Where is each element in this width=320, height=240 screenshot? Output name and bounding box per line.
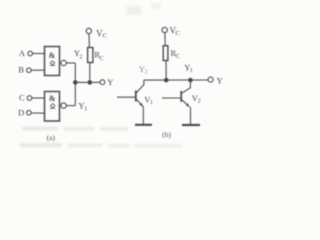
input terminal A [28, 51, 33, 56]
svg-text:(a): (a) [47, 133, 56, 142]
input terminal C [27, 96, 32, 101]
resistor RC (b) [163, 46, 168, 61]
input terminal B [27, 68, 32, 73]
output bus (a) [75, 81, 100, 83]
junction node (a) left [73, 80, 78, 85]
wire Vcc to resistor (b) [164, 33, 167, 46]
wire common output node vertical [74, 63, 76, 106]
page bleed-through smudge [20, 3, 182, 147]
svg-text:Y: Y [217, 75, 223, 85]
gate U1 open-collector symbol [50, 61, 55, 65]
input terminal D [27, 110, 32, 115]
wire V2 emitter to ground [190, 107, 192, 124]
svg-text:(b): (b) [162, 130, 171, 139]
ground V1 [135, 124, 152, 126]
OC NAND gate U1 body [45, 47, 60, 76]
transistor V1 emitter with arrow [136, 99, 143, 106]
power terminal Vcc (a) [86, 28, 91, 33]
svg-text:C: C [100, 56, 104, 62]
svg-text:A: A [19, 48, 26, 58]
transistor V2 base wire [162, 97, 180, 99]
svg-text:D: D [18, 107, 24, 117]
svg-text:C: C [176, 54, 180, 60]
ground V2 [182, 124, 200, 126]
wire B to gate U1 [31, 69, 44, 71]
svg-text:2: 2 [145, 70, 148, 76]
gate U2 open-collector symbol [50, 104, 55, 108]
transistor V1 collector [136, 80, 144, 93]
output terminal Y (b) [208, 77, 213, 82]
collector bus (b) [144, 79, 208, 81]
wire Vcc to resistor (a) [88, 34, 90, 48]
transistor V2 collector [182, 80, 191, 93]
svg-text:B: B [18, 64, 24, 74]
svg-text:1: 1 [190, 68, 193, 74]
svg-text:1: 1 [150, 100, 153, 106]
output terminal Y (a) [100, 80, 105, 85]
resistor RC (a) [88, 48, 93, 63]
wire D to gate U2 [31, 112, 44, 114]
wire resistor to bus (b) [165, 61, 167, 81]
svg-text:&: & [49, 94, 56, 103]
svg-text:1: 1 [84, 107, 87, 113]
junction node V2 collector (b) [188, 78, 193, 83]
transistor V1 base wire [117, 96, 135, 98]
wire A to gate U1 [33, 53, 45, 55]
junction node (a) right [88, 80, 93, 85]
gate U1 inversion bubble [61, 60, 66, 65]
svg-text:&: & [49, 51, 56, 60]
wire U1 output [66, 62, 75, 64]
power terminal Vcc (b) [162, 27, 167, 32]
svg-text:C: C [103, 32, 107, 39]
svg-text:C: C [175, 30, 179, 37]
junction node Rc-bus (b) [164, 78, 169, 83]
svg-text:C: C [19, 93, 25, 103]
svg-text:2: 2 [79, 55, 82, 61]
transistor V2 base bar [180, 91, 182, 102]
wire V1 emitter to ground [142, 106, 144, 124]
wire resistor to bus (a) [89, 63, 91, 83]
wire C to gate U2 [32, 97, 45, 99]
transistor V1 base bar [135, 91, 137, 102]
OC NAND gate U2 body [45, 92, 60, 122]
wire U2 output [66, 105, 75, 107]
svg-text:2: 2 [198, 99, 201, 105]
transistor V2 emitter with arrow [182, 100, 190, 107]
svg-text:Y: Y [107, 77, 113, 87]
gate U2 inversion bubble [61, 103, 66, 108]
